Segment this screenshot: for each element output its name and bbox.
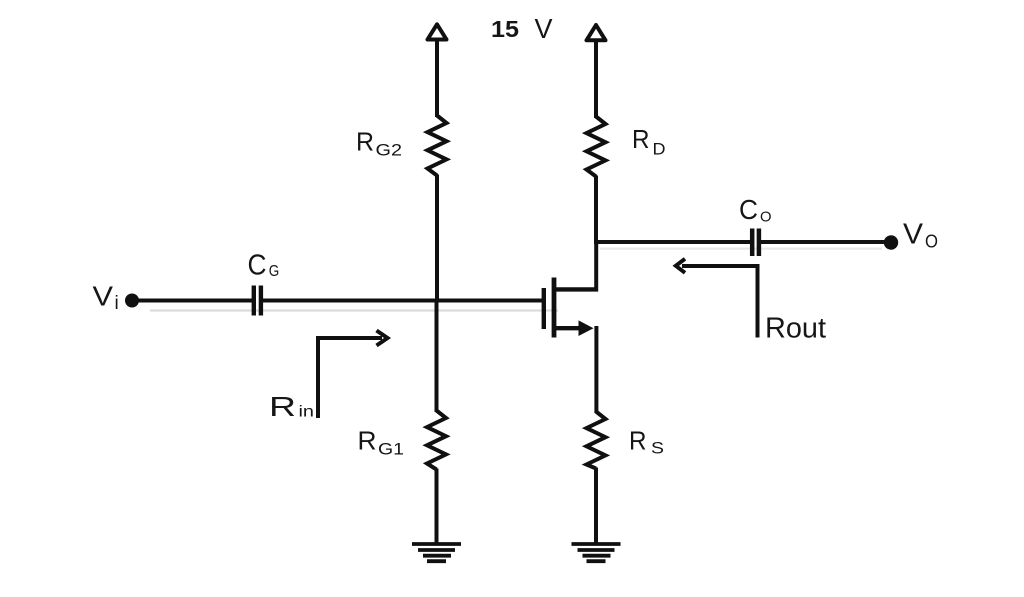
resistor RG1 bbox=[427, 411, 446, 470]
wire RG2 to gate node bbox=[435, 175, 439, 303]
node Vo bbox=[884, 235, 898, 249]
svg-text:V: V bbox=[903, 219, 924, 251]
resistor RS bbox=[587, 412, 606, 469]
resistor RG2 bbox=[428, 116, 447, 176]
wire supply arrow to RD bbox=[594, 41, 598, 119]
Rout measurement arrow bbox=[682, 266, 758, 338]
ground (RG1 branch) bbox=[412, 544, 461, 561]
wire gate node to RG1 bbox=[435, 299, 439, 412]
transistor M1 (n-channel MOSFET) bbox=[544, 278, 598, 338]
source lead bbox=[554, 326, 582, 330]
svg-text:15: 15 bbox=[491, 16, 519, 42]
svg-text:in: in bbox=[299, 404, 315, 421]
wire MOSFET source down to RS bbox=[594, 326, 598, 413]
label RD bbox=[632, 124, 666, 159]
node Vi bbox=[125, 294, 139, 308]
label RG1 bbox=[358, 426, 405, 459]
label Vo bbox=[903, 219, 938, 252]
label CG bbox=[248, 250, 280, 282]
svg-text:V: V bbox=[535, 13, 553, 44]
svg-text:R: R bbox=[632, 124, 650, 154]
capacitor CG bbox=[254, 286, 261, 316]
channel bar bbox=[552, 278, 557, 338]
svg-text:Rout: Rout bbox=[765, 313, 826, 345]
capacitor CO bbox=[752, 229, 759, 257]
svg-text:R: R bbox=[629, 426, 647, 456]
svg-text:R: R bbox=[269, 391, 296, 422]
svg-text:O: O bbox=[925, 232, 938, 252]
svg-text:V: V bbox=[93, 281, 114, 312]
label Rin bbox=[269, 391, 314, 422]
wire CG to MOSFET gate bbox=[263, 299, 542, 303]
svg-text:O: O bbox=[760, 209, 772, 226]
wire Vi to CG bbox=[134, 299, 252, 303]
source arrowhead bbox=[579, 320, 594, 336]
wire RD to drain node bbox=[594, 176, 598, 245]
wire CO to Vo bbox=[761, 240, 888, 244]
Rin measurement arrow bbox=[318, 338, 382, 418]
drain lead bbox=[554, 287, 598, 291]
label Vi bbox=[93, 281, 119, 315]
svg-text:G: G bbox=[269, 263, 280, 280]
svg-text:i: i bbox=[115, 293, 119, 314]
wire RG1 to ground bbox=[435, 469, 439, 546]
power supply arrow (right, RD branch) bbox=[587, 25, 606, 40]
wire RS to ground bbox=[594, 468, 598, 546]
ground (RS branch) bbox=[572, 544, 621, 561]
svg-text:R: R bbox=[358, 426, 377, 456]
wire (faint ghost under output wire) bbox=[600, 248, 882, 250]
svg-text:S: S bbox=[651, 439, 664, 458]
wire supply arrow to RG2 bbox=[435, 40, 439, 118]
wire (faint ghost under gate wire) bbox=[150, 309, 558, 311]
wire drain node to CO bbox=[594, 240, 751, 244]
gate bar bbox=[542, 288, 546, 329]
svg-text:G1: G1 bbox=[378, 440, 404, 459]
svg-text:R: R bbox=[356, 127, 374, 157]
resistor RD bbox=[587, 117, 606, 177]
wire drain node down to MOSFET drain bbox=[594, 240, 598, 292]
label CO bbox=[739, 194, 772, 226]
label 15 V supply bbox=[491, 13, 553, 44]
svg-text:C: C bbox=[739, 194, 758, 225]
label RG2 bbox=[356, 127, 402, 160]
label Rout bbox=[765, 313, 826, 345]
svg-text:G2: G2 bbox=[376, 141, 403, 160]
power supply arrow (left, RG2 branch) bbox=[428, 24, 447, 39]
label RS bbox=[629, 426, 664, 458]
svg-text:D: D bbox=[653, 140, 666, 159]
svg-text:C: C bbox=[248, 250, 267, 282]
